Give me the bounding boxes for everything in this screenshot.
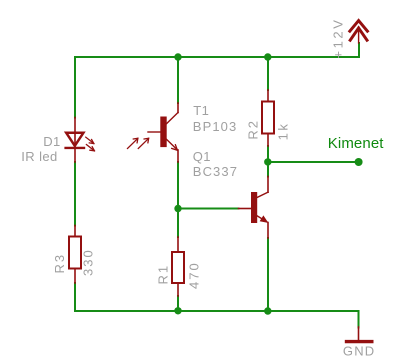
diode D1 [66, 118, 84, 163]
phototransistor T1 [148, 103, 178, 162]
svg-text:R2: R2 [245, 119, 260, 140]
transistor Q1 [239, 177, 269, 239]
D1 emission arrow 2 [86, 145, 94, 151]
node output end [355, 158, 363, 166]
label R2 [245, 119, 260, 140]
wire R3 to bottom rail [74, 283, 76, 311]
label GND [343, 344, 376, 359]
svg-text:BP103: BP103 [193, 119, 238, 134]
wire left vertical upper [74, 57, 76, 118]
T1 photo arrow 1 [128, 138, 138, 148]
svg-text:470: 470 [186, 261, 201, 289]
label BC337 [193, 164, 238, 179]
label 470 [186, 261, 201, 289]
junction R2-output-Q1 [264, 158, 271, 165]
label R1 [156, 264, 171, 285]
resistor R3 [69, 226, 81, 284]
wire GND drop [358, 311, 360, 328]
label D1 [43, 134, 60, 149]
svg-text:T1: T1 [193, 103, 209, 118]
label BP103 [193, 119, 238, 134]
T1 photo arrow 2 [138, 138, 148, 148]
wire D1 to R3 [74, 162, 76, 226]
wire R1 to bottom rail [177, 296, 179, 311]
junction top R2 [264, 53, 271, 60]
svg-text:IR led: IR led [21, 149, 57, 164]
label IR led [21, 149, 57, 164]
resistor R2 [262, 90, 274, 146]
resistor R1 [172, 237, 184, 296]
ground symbol [347, 327, 372, 342]
svg-text:R1: R1 [156, 264, 171, 285]
svg-text:GND: GND [343, 344, 376, 359]
wire bottom rail [75, 310, 359, 312]
junction node T1-R1-Q1 [174, 205, 181, 212]
wire +12V drop [358, 43, 360, 57]
label Q1 [193, 149, 211, 164]
svg-text:BC337: BC337 [193, 164, 238, 179]
wire Q1 emitter to bottom rail [267, 238, 269, 311]
wire output net [268, 161, 359, 163]
label 330 [81, 248, 96, 276]
wire T1 collector [177, 57, 179, 103]
svg-text:D1: D1 [43, 134, 60, 149]
svg-text:1k: 1k [276, 122, 291, 141]
wire top rail to R2 [267, 57, 269, 90]
junction R1 bottom [174, 307, 181, 314]
D1 emission arrow 1 [86, 137, 94, 143]
svg-text:R3: R3 [52, 253, 67, 274]
svg-text:+12V: +12V [331, 17, 346, 58]
junction emitter bottom [264, 307, 271, 314]
wire Q1 base [178, 208, 239, 210]
label T1 [193, 103, 209, 118]
net label Kimenet [328, 135, 384, 152]
wire top rail [75, 56, 359, 58]
svg-text:330: 330 [81, 248, 96, 276]
wire R2 to Q1 collector [267, 146, 269, 177]
wire node to R1 [177, 209, 179, 238]
label R3 [52, 253, 67, 274]
label +12V [331, 17, 346, 58]
power +12V symbol [350, 21, 368, 43]
svg-text:Kimenet: Kimenet [328, 135, 384, 152]
junction top T1 [174, 53, 181, 60]
svg-text:Q1: Q1 [193, 149, 211, 164]
wire T1 emitter to node [177, 162, 179, 209]
label 1k [276, 122, 291, 141]
